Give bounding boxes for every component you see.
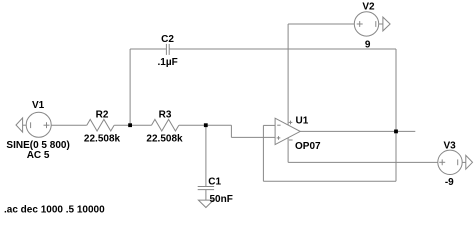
- svg-text:C1: C1: [208, 177, 221, 188]
- voltage source V1: [26, 112, 51, 137]
- wire - input stub: [263, 124, 275, 126]
- svg-text:V3: V3: [443, 140, 456, 151]
- svg-text:9: 9: [365, 39, 371, 50]
- wire V+ pin up: [287, 24, 289, 125]
- node A junction dot: [128, 123, 132, 127]
- capacitor C2: [166, 44, 169, 55]
- ground (right of V2): [383, 17, 390, 31]
- svg-text:U1: U1: [296, 115, 309, 126]
- wire node A up to C2: [129, 49, 131, 125]
- svg-text:22.508k: 22.508k: [84, 133, 121, 144]
- resistor R2: [87, 119, 114, 131]
- wire feedback right vertical: [395, 49, 397, 181]
- svg-text:V1: V1: [32, 100, 45, 111]
- ground (left of V1): [16, 118, 27, 132]
- wire V- pin down: [287, 138, 289, 163]
- wire feedback bottom: [263, 180, 396, 182]
- wire jog down: [230, 125, 232, 137]
- svg-text:22.508k: 22.508k: [146, 133, 183, 144]
- wire R2 to R3: [114, 124, 151, 126]
- wire R3 to jog: [179, 124, 232, 126]
- svg-text:OP07: OP07: [295, 141, 321, 152]
- resistor R3: [152, 119, 179, 131]
- ground (right of V3): [466, 155, 473, 169]
- svg-text:R2: R2: [96, 109, 109, 120]
- voltage source V2: [354, 12, 383, 36]
- wire feedback left vertical: [262, 125, 264, 181]
- svg-text:.ac dec 1000 .5 10000: .ac dec 1000 .5 10000: [4, 205, 105, 216]
- capacitor C1: [198, 187, 214, 190]
- voltage source V3: [438, 150, 466, 174]
- wire node B down to C1: [205, 125, 207, 186]
- svg-text:.1µF: .1µF: [157, 57, 177, 68]
- svg-text:V2: V2: [362, 1, 375, 12]
- svg-text:AC 5: AC 5: [27, 150, 50, 161]
- wire V+ rail to V2: [288, 23, 354, 25]
- svg-text:C2: C2: [161, 34, 174, 45]
- svg-text:R3: R3: [159, 109, 172, 120]
- output node junction dot: [394, 130, 398, 134]
- svg-text:50nF: 50nF: [210, 194, 233, 205]
- wire V1 to R2: [51, 124, 87, 126]
- svg-text:-9: -9: [445, 177, 454, 188]
- wire jog to op-amp + input: [231, 136, 275, 138]
- wire C1 to ground: [205, 190, 207, 201]
- ground (below C1): [198, 200, 213, 207]
- op-amp U1: [275, 118, 300, 144]
- wire V- rail to V3: [288, 161, 438, 163]
- wire op-amp output: [300, 130, 415, 132]
- wire C2 right: [169, 48, 396, 50]
- node B junction dot: [204, 123, 208, 127]
- wire C2 left: [130, 48, 166, 50]
